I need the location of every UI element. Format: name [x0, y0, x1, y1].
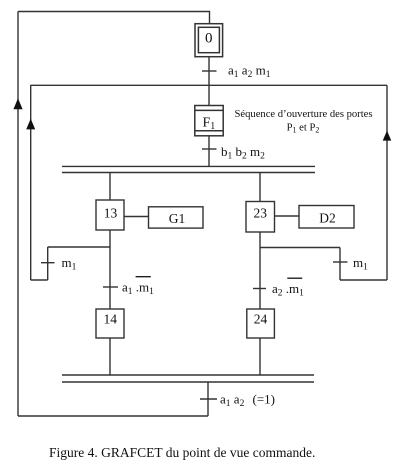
overline of m1bar left — [136, 276, 151, 278]
svg-text:13: 13 — [104, 206, 118, 221]
transition t-end tick — [200, 398, 217, 400]
macro-step F1 — [195, 106, 223, 136]
wire: left inner return vertical — [30, 85, 32, 280]
arrowhead on left outer return — [13, 98, 22, 109]
svg-text:D2: D2 — [319, 211, 336, 226]
action box G1 — [149, 207, 204, 228]
svg-text:Figure 4. GRAFCET du point de: Figure 4. GRAFCET du point de vue comman… — [49, 445, 315, 460]
step 24 — [247, 309, 275, 338]
step 14 — [96, 309, 124, 338]
svg-text:24: 24 — [254, 312, 268, 327]
wire: below step 24 — [259, 338, 261, 375]
transition m1 right tick — [333, 261, 348, 263]
wire: main line step0 to F1 — [208, 57, 210, 106]
svg-text:Séquence d’ouverture des porte: Séquence d’ouverture des portes — [235, 109, 373, 120]
svg-text:23: 23 — [254, 205, 268, 220]
svg-text:0: 0 — [205, 31, 213, 47]
action box D2 — [299, 206, 354, 229]
svg-text:14: 14 — [103, 312, 117, 327]
svg-text:P1 et P2: P1 et P2 — [287, 123, 320, 135]
wire: left m1 branch vertical — [47, 247, 49, 280]
arrowhead on left inner return — [26, 119, 35, 130]
wire: below step 13 — [109, 230, 111, 309]
step 23 — [246, 202, 275, 233]
transition t1 tick — [202, 70, 217, 72]
transition t2 tick — [202, 148, 217, 150]
svg-text:(=1): (=1) — [253, 392, 276, 407]
wire: left m1 branch bottom — [31, 279, 48, 281]
transition m1 left tick — [41, 262, 55, 264]
wire: left m1 branch horizontal — [48, 246, 110, 248]
wire: top loop horizontal — [18, 12, 210, 25]
svg-text:G1: G1 — [169, 211, 186, 226]
parallel AND join double bar — [62, 374, 314, 376]
wire: 23 to D2 connector — [275, 215, 300, 217]
wire: bottom loop horizontal — [18, 415, 208, 417]
transition a1.m1bar tick — [103, 286, 118, 288]
wire: right return vertical — [386, 85, 388, 280]
wire: return line horizontal — [31, 84, 387, 86]
wire: F1 to AND split — [208, 136, 210, 166]
wire: below step 23 — [259, 232, 261, 309]
wire: left branch drop — [109, 173, 111, 201]
parallel AND split double bar — [62, 165, 315, 167]
overline of m1bar right — [287, 277, 302, 279]
arrowhead on right return — [383, 131, 392, 141]
wire: right m1 branch horizontal — [260, 247, 340, 249]
wire: right m1 branch vertical — [339, 248, 341, 281]
wire: below step 14 — [109, 338, 111, 375]
wire: right m1 branch bottom — [340, 279, 387, 281]
wire: 13 to G1 connector — [124, 216, 149, 218]
step 13 — [96, 200, 124, 230]
transition a2.m1bar tick — [253, 288, 266, 290]
wire: right branch drop — [259, 173, 261, 202]
wire: join to bottom transition — [207, 382, 209, 416]
wire: left outer return vertical — [17, 12, 19, 417]
step 0 (initial step, double box) — [195, 24, 223, 57]
